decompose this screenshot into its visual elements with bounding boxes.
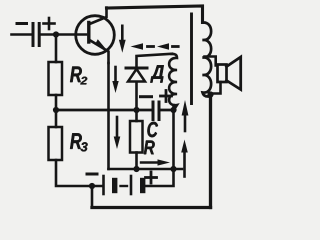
speaker horn — [227, 57, 241, 90]
wire R3 bottom lead to battery — [56, 160, 103, 186]
node R bottom dot — [133, 166, 139, 172]
label C — [147, 122, 158, 137]
diode cathode bar — [126, 67, 147, 70]
battery cell1 long plate — [102, 176, 105, 194]
current arrow up U1 — [182, 100, 189, 131]
label R — [144, 141, 155, 155]
current arrow up U2 — [181, 140, 188, 177]
transistor VT1 base bar — [87, 23, 90, 43]
wire R3 top lead — [55, 110, 58, 127]
resistor R2 body — [49, 62, 63, 95]
wire h1 bus right segment — [160, 109, 173, 112]
wire h1 bus left segment — [56, 109, 152, 112]
battery minus label — [87, 173, 97, 176]
node battery left dot — [89, 183, 95, 189]
wire top rail — [107, 6, 203, 23]
dashed HF arrow 1 — [131, 43, 154, 50]
diode anode wire — [135, 83, 138, 111]
speaker bottom wire — [211, 82, 221, 94]
wire right drop — [209, 94, 212, 208]
wire emitter vertical — [107, 63, 110, 169]
capacitor C1 plus label — [44, 18, 55, 29]
battery plus label — [146, 172, 157, 183]
R3 label R — [70, 133, 82, 149]
node battery plus riser dot — [170, 166, 176, 172]
resistor R body — [130, 121, 143, 153]
diode triangle — [128, 69, 145, 82]
transformer right coil — [203, 22, 212, 96]
wire base lead — [41, 33, 86, 36]
R2 label R — [70, 67, 82, 83]
wire battery left drop — [91, 186, 94, 208]
capacitor C1 minus label — [17, 22, 27, 25]
resistor R3 body — [49, 127, 63, 160]
battery cell1 short plate — [112, 181, 117, 191]
label D — [150, 65, 164, 82]
wire R2 bottom lead — [55, 95, 58, 110]
resistor R top lead — [135, 110, 138, 121]
node coil bus dot — [170, 107, 176, 113]
background paper — [0, 0, 250, 219]
battery dash link — [121, 185, 128, 187]
capacitor C1 plates — [33, 24, 39, 46]
speaker tap wire — [205, 57, 216, 66]
battery cell2 short plate — [140, 181, 145, 191]
capacitor C plates — [153, 102, 159, 120]
transformer left coil — [169, 54, 177, 110]
wire bottom rail — [92, 206, 211, 209]
current arrow right — [141, 159, 170, 165]
current arrow down below bus — [114, 117, 121, 149]
transistor VT1 emitter arrowhead — [95, 39, 105, 48]
node speaker junction dot — [207, 91, 213, 97]
transistor VT1 collector lead — [90, 8, 107, 25]
transistor VT1 circle — [76, 16, 115, 55]
node diode bus dot — [133, 107, 139, 113]
current arrow down near collector — [119, 26, 126, 53]
capacitor C plus label — [161, 91, 172, 102]
capacitor C minus label — [141, 95, 152, 98]
diode wire top corner from bus — [137, 54, 173, 67]
resistor R bottom lead — [135, 153, 138, 170]
node R2 R3 bus dot — [53, 107, 59, 113]
node base junction dot — [53, 31, 59, 37]
transistor VT1 emitter lead — [90, 40, 109, 63]
R2 label sub2 — [80, 77, 87, 85]
wire input lead left — [12, 33, 32, 36]
wire battery right feed — [146, 105, 174, 186]
dashed HF arrow 2 — [157, 43, 178, 50]
wire R2 top lead — [55, 35, 58, 63]
wire emitter bottom horizontal — [109, 168, 183, 171]
R3 label sub3 — [81, 142, 88, 151]
current arrow down beside emitter — [112, 67, 118, 93]
transformer core — [190, 14, 193, 104]
speaker body rect — [218, 65, 227, 83]
battery cell2 long plate — [130, 176, 133, 194]
